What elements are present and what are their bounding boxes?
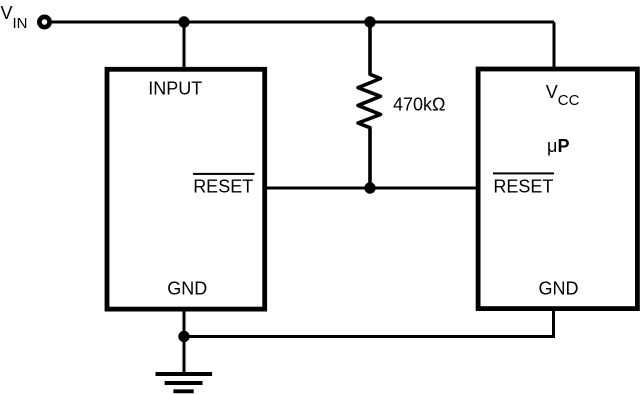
ground symbol [156, 374, 213, 391]
resistor R1 470k [358, 22, 381, 188]
wire RESET net [265, 187, 478, 190]
svg-text:μ: μ [547, 136, 557, 156]
svg-text:RESET: RESET [193, 176, 253, 196]
junction node GND net [178, 331, 189, 342]
junction node RESET-resistor [364, 182, 375, 193]
microprocessor U2 box [478, 69, 637, 309]
terminal VIN [39, 17, 49, 27]
wire top bus [52, 21, 554, 24]
IC U1 supervisor box [107, 69, 265, 309]
wire U2 GND down [552, 309, 555, 338]
svg-text:RESET: RESET [493, 176, 553, 196]
svg-text:IN: IN [13, 15, 28, 32]
wire U1 GND down [183, 309, 186, 373]
svg-text:GND: GND [167, 279, 207, 299]
svg-text:P: P [558, 136, 570, 156]
svg-text:GND: GND [539, 279, 579, 299]
pin label RESET U2 [493, 172, 554, 196]
svg-text:INPUT: INPUT [148, 78, 202, 98]
svg-text:V: V [1, 3, 13, 23]
junction node top-left [178, 16, 189, 27]
wire GND bottom bus [184, 335, 554, 338]
svg-text:CC: CC [558, 92, 580, 109]
part label uP [547, 136, 570, 156]
junction node top-resistor [364, 16, 375, 27]
wire VIN to INPUT pin [183, 22, 186, 71]
wire top bus to VCC pin [553, 22, 556, 71]
svg-text:470kΩ: 470kΩ [393, 95, 446, 115]
svg-text:V: V [546, 82, 558, 102]
pin label VCC [546, 82, 580, 109]
net label VIN [1, 3, 28, 32]
pin label RESET U1 [193, 173, 255, 197]
